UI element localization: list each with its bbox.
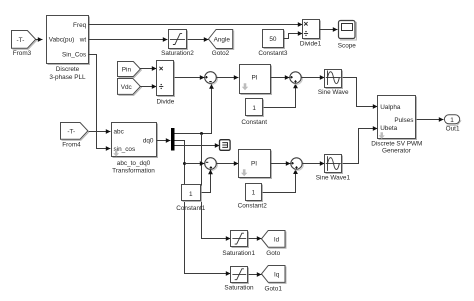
from tag From3: [12, 31, 37, 58]
wire wt to Saturation2: [89, 37, 168, 42]
output port Out1: [444, 115, 460, 133]
sum junction Sum4: [291, 158, 304, 171]
svg-text:1: 1: [252, 105, 256, 112]
svg-text:PI: PI: [251, 160, 257, 167]
demux Demux: [171, 128, 175, 151]
wire Sum2 to Sine Wave: [302, 75, 325, 80]
wire Saturation1 to Goto: [249, 236, 262, 241]
wire Pin to Divide input 1: [140, 66, 157, 71]
block Constant1 value 1: [176, 185, 206, 212]
junction node on d line: [200, 132, 203, 135]
block Sine Wave: [318, 70, 349, 96]
block Constant2 value 1: [238, 184, 268, 210]
wire Demux out2 down to Saturation: [175, 141, 231, 276]
svg-text:Iq: Iq: [274, 271, 280, 278]
svg-text:abc_to_dq0: abc_to_dq0: [117, 160, 151, 167]
from tag From4: [61, 123, 89, 149]
wire Constant1 to Sum3 bottom: [202, 170, 213, 193]
block PI controller 2: [239, 150, 272, 179]
wire From3 to PLL: [36, 37, 43, 42]
svg-text:Transformation: Transformation: [112, 167, 155, 174]
wire q branch to Sum3: [185, 161, 205, 166]
wire d branch down to Saturation1: [202, 134, 231, 241]
svg-text:Saturation1: Saturation1: [222, 250, 255, 257]
block Saturation1: [222, 231, 255, 257]
svg-text:Freq: Freq: [73, 22, 87, 29]
block Constant3 value 50: [258, 30, 288, 58]
block abc_to_dq0 Transformation: [112, 123, 158, 175]
svg-text:Generator: Generator: [382, 148, 412, 155]
goto tag Goto1 Iq: [262, 266, 287, 293]
svg-text:50: 50: [269, 36, 277, 43]
wire From4 to abc: [89, 129, 111, 134]
svg-text:Pin: Pin: [122, 66, 132, 73]
svg-text:Ualpha: Ualpha: [380, 104, 401, 111]
svg-text:Vdc: Vdc: [121, 84, 133, 91]
wire Divide1 to Scope: [320, 27, 338, 32]
wire Demux out3 to viewer block: [175, 143, 220, 148]
svg-text:Saturation2: Saturation2: [161, 50, 194, 57]
svg-text:3-phase PLL: 3-phase PLL: [49, 74, 86, 81]
wire Divide to Sum1: [175, 75, 205, 80]
svg-text:Id: Id: [274, 236, 280, 243]
block Divide: [157, 61, 175, 106]
block Scope: [338, 21, 357, 50]
viewer block: [220, 140, 231, 151]
svg-text:PI: PI: [251, 75, 257, 82]
block Divide1: [300, 20, 322, 48]
wire Pulses to Out1: [417, 117, 444, 122]
svg-text:1: 1: [252, 189, 256, 196]
sum junction Sum1: [205, 72, 218, 85]
from tag Vdc: [118, 79, 142, 96]
svg-text:Divide1: Divide1: [300, 41, 322, 48]
svg-text:Sine Wave1: Sine Wave1: [316, 175, 351, 182]
svg-text:Constant: Constant: [241, 119, 267, 126]
block PI controller 1: [240, 65, 272, 95]
svg-text:1: 1: [189, 191, 193, 198]
svg-text:1: 1: [450, 117, 454, 124]
wire Sine Wave1 to Ubeta: [343, 126, 378, 163]
svg-text:Sin_Cos: Sin_Cos: [62, 52, 86, 59]
wire Constant to Sum2: [264, 84, 298, 108]
svg-text:Vabc(pu): Vabc(pu): [49, 37, 74, 44]
block Saturation: [224, 267, 254, 292]
wire Sum3 to PI2: [217, 161, 239, 166]
svg-text:Constant3: Constant3: [258, 50, 288, 57]
wire Sine Wave to Ualpha: [343, 78, 378, 109]
sum junction Sum3: [205, 158, 218, 171]
wire PI to Sum2: [271, 75, 290, 80]
svg-text:wt: wt: [79, 37, 87, 44]
wire Freq to Divide1 input 1: [89, 22, 303, 27]
block Sine Wave1: [316, 155, 351, 182]
goto tag Goto Id: [262, 231, 287, 257]
block Discrete 3-phase PLL: [47, 16, 90, 82]
svg-text:Ubeta: Ubeta: [380, 125, 397, 132]
block Constant value 1: [241, 99, 267, 127]
block Discrete SV PWM Generator: [371, 96, 422, 155]
svg-text:Goto: Goto: [266, 250, 280, 257]
wire Saturation2 to Goto2: [188, 37, 209, 42]
svg-text:Sine Wave: Sine Wave: [318, 89, 349, 96]
wire PI2 to Sum4: [271, 161, 291, 166]
svg-text:From3: From3: [13, 50, 32, 57]
svg-text:Out1: Out1: [446, 126, 460, 133]
svg-text:Divide: Divide: [157, 99, 175, 106]
wire Constant3 to Divide1 input 2: [284, 31, 303, 38]
svg-text:Constant2: Constant2: [238, 202, 268, 209]
svg-text:abc: abc: [114, 128, 125, 135]
svg-text:dq0: dq0: [143, 137, 154, 144]
wire Sum4 to Sine Wave1: [303, 161, 325, 166]
svg-text:Goto1: Goto1: [264, 285, 282, 292]
wire Saturation to Goto1: [249, 272, 262, 277]
from tag Pin: [118, 62, 142, 78]
wire dq0 to Demux: [157, 138, 171, 143]
svg-text:Pulses: Pulses: [394, 117, 413, 124]
sum junction Sum2: [290, 72, 303, 85]
wire Sum1 to PI: [217, 75, 239, 80]
svg-text:-T-: -T-: [67, 128, 75, 135]
svg-text:Angle: Angle: [214, 36, 231, 43]
svg-text:-T-: -T-: [17, 37, 25, 44]
junction node on q line: [183, 162, 186, 165]
svg-text:Discrete: Discrete: [56, 66, 80, 73]
svg-text:Goto2: Goto2: [212, 50, 230, 57]
wire Demux out1 to Sum1 bottom: [175, 84, 214, 134]
svg-text:From4: From4: [62, 141, 81, 148]
svg-text:Scope: Scope: [338, 43, 357, 50]
svg-text:Discrete SV PWM: Discrete SV PWM: [371, 141, 422, 148]
wire Sin_Cos to sin_cos: [89, 55, 111, 151]
goto tag Goto2 Angle: [209, 30, 234, 58]
svg-text:Constant1: Constant1: [176, 205, 206, 212]
wire Vdc to Divide input 2: [140, 84, 157, 89]
svg-text:Saturation: Saturation: [224, 284, 254, 291]
wire Constant2 to Sum4: [263, 169, 298, 192]
block Saturation2: [161, 30, 194, 58]
